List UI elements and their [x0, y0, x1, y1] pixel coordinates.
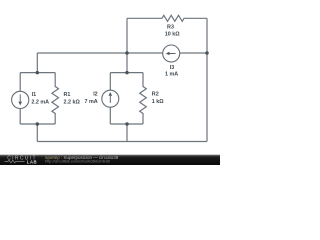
svg-text:I3: I3 — [170, 65, 175, 71]
svg-text:R3: R3 — [167, 25, 174, 31]
svg-text:I2: I2 — [93, 92, 98, 98]
svg-text:2.2 kΩ: 2.2 kΩ — [64, 99, 81, 105]
svg-text:R1: R1 — [64, 92, 71, 98]
svg-text:10 kΩ: 10 kΩ — [165, 31, 180, 37]
svg-text:LAB: LAB — [27, 159, 37, 164]
svg-text:1 mA: 1 mA — [165, 72, 178, 78]
svg-text:http://circuitlab.com/circuit/: http://circuitlab.com/circuit/c6kk2mk38 — [45, 160, 110, 164]
svg-text:2.2 mA: 2.2 mA — [31, 99, 49, 105]
svg-text:1 kΩ: 1 kΩ — [152, 99, 164, 105]
svg-text:R2: R2 — [152, 92, 159, 98]
svg-text:I1: I1 — [32, 92, 36, 98]
svg-text:7 mA: 7 mA — [85, 99, 98, 105]
